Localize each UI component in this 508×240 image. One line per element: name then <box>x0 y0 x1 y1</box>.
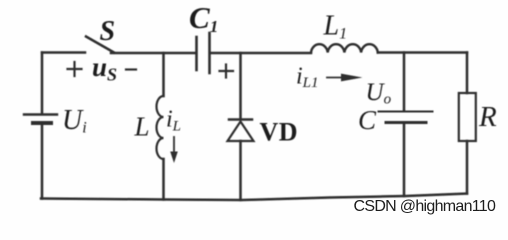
wire switch to C1 left plate <box>111 52 195 55</box>
minus sign of uS <box>126 68 136 70</box>
svg-text:uS: uS <box>92 52 117 85</box>
svg-text:C1: C1 <box>189 0 218 36</box>
capacitor C1 right plate <box>208 33 211 73</box>
svg-text:iL: iL <box>166 107 181 135</box>
wire top-left horizontal from source to switch <box>42 51 85 54</box>
arrow of iL (line) <box>173 137 175 153</box>
wire inductor L to bottom wire <box>162 159 165 200</box>
svg-text:L: L <box>134 112 150 142</box>
wire resistor R to bottom wire <box>466 141 469 194</box>
switch S blade <box>86 37 114 53</box>
plus sign of uS (vertical stroke) <box>73 62 75 76</box>
node: junction top wire to output capacitor C <box>403 53 406 111</box>
svg-text:CSDN @highman110: CSDN @highman110 <box>354 198 497 215</box>
svg-text:Uo: Uo <box>366 79 392 108</box>
svg-text:S: S <box>100 16 116 47</box>
diode VD triangle <box>228 122 254 142</box>
plus sign of uS (horizontal stroke) <box>68 68 82 70</box>
diode VD cathode bar <box>229 118 252 121</box>
battery Ui long plate <box>24 113 57 115</box>
svg-text:iL1: iL1 <box>296 64 319 92</box>
plus sign of C1 polarity (vertical stroke) <box>225 65 227 78</box>
wire top-right corner down to resistor R <box>466 53 469 94</box>
wire battery to bottom-left corner <box>41 125 44 199</box>
capacitor C bottom plate <box>386 121 426 124</box>
arrow head of iL (downward) <box>170 152 178 164</box>
wire left vertical from top corner to battery <box>41 53 44 114</box>
svg-text:R: R <box>478 101 497 133</box>
svg-text:C: C <box>358 105 377 135</box>
capacitor C top plate <box>379 111 433 113</box>
arrow of iL1 (line) <box>327 77 344 79</box>
bottom wire <box>41 194 467 201</box>
wire C1 to L1 coil <box>211 52 312 55</box>
svg-text:Ui: Ui <box>62 105 87 137</box>
node: junction top wire to inductor L branch <box>162 53 165 96</box>
arrow head of iL1 (rightward) <box>341 74 363 82</box>
wire L1 to top-right corner <box>378 51 467 54</box>
wire diode VD anode to bottom wire <box>239 141 242 200</box>
node: junction top wire to diode VD branch <box>239 53 242 119</box>
svg-text:L1: L1 <box>323 11 348 43</box>
svg-text:VD: VD <box>260 118 299 147</box>
wire capacitor C to bottom wire <box>403 124 406 197</box>
plus sign of C1 polarity (horizontal stroke) <box>220 70 234 72</box>
inductor L1 coil (4 humps) <box>311 44 378 52</box>
battery Ui short plate <box>33 121 51 125</box>
inductor L coil (3 arcs, vertical) <box>157 96 164 159</box>
resistor R body <box>459 93 476 141</box>
capacitor C1 left plate <box>195 37 198 70</box>
